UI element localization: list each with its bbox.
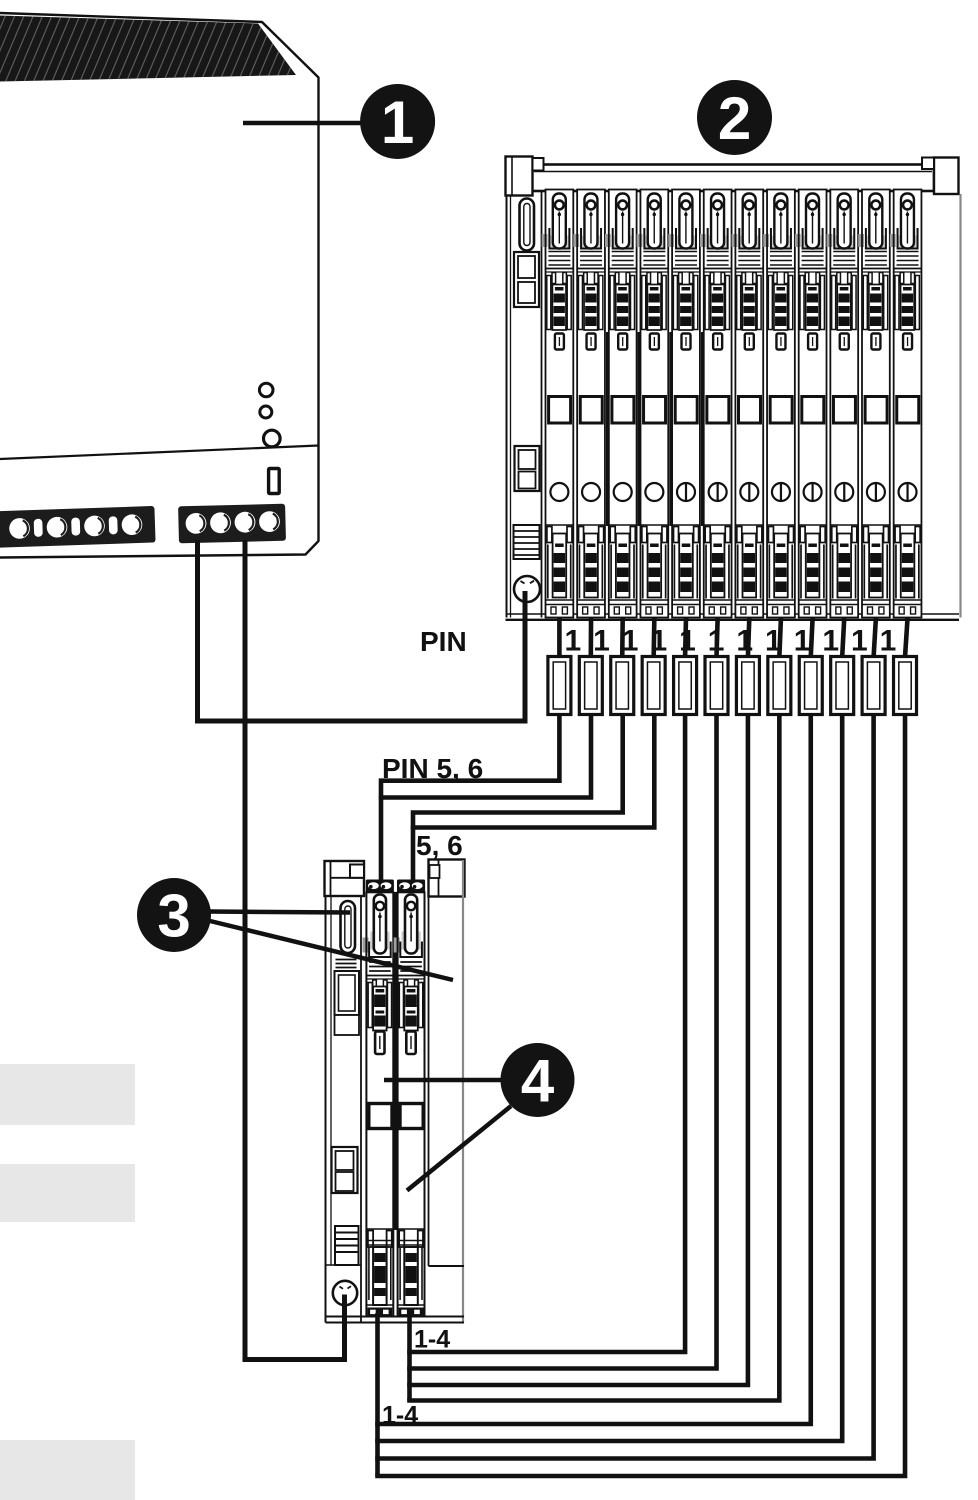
tag 9	[799, 657, 822, 715]
array DIN rail	[532, 165, 935, 192]
terminal module 1	[542, 190, 574, 618]
svg-text:1: 1	[765, 625, 782, 658]
wire tag 12 to module A pin 4	[375, 715, 905, 1477]
power supply right terminal block	[178, 504, 286, 544]
module 6 screw slot	[717, 483, 719, 501]
tag 5	[674, 657, 697, 715]
wire module 5 to tag 5	[683, 618, 689, 657]
wire power supply to lower unit screw	[245, 540, 345, 1360]
lower unit bottom edges	[326, 1317, 465, 1323]
lower unit column stripes	[336, 960, 357, 968]
background block 1	[0, 1064, 135, 1125]
module separator	[701, 332, 705, 526]
array right edge	[959, 194, 961, 618]
wire tag 6 to module B pin 2	[407, 715, 716, 1369]
wire tag 2 to module A pins 5,6	[379, 715, 591, 798]
array column clip A	[514, 252, 539, 307]
svg-text:1: 1	[794, 625, 811, 658]
lower unit left mount column	[326, 896, 362, 1323]
array bottom edge	[506, 613, 960, 615]
svg-text:1: 1	[650, 625, 667, 658]
array left mount column	[507, 191, 542, 618]
callout 3 bubble	[137, 878, 211, 952]
array column spring	[514, 525, 540, 559]
wire module 3 to tag 3	[620, 618, 625, 657]
tag 1	[548, 657, 571, 715]
lower unit left bracket	[325, 861, 365, 896]
terminal module 8	[763, 190, 795, 618]
module 11 screw slot	[875, 483, 877, 501]
array column slot	[520, 199, 535, 251]
wire module 6 to tag 6	[717, 618, 718, 657]
svg-text:1: 1	[679, 625, 696, 658]
wire module 1 to tag 1	[557, 618, 562, 657]
tag 4	[642, 657, 665, 715]
terminal module 7	[732, 190, 764, 618]
module 10 screw slot	[843, 483, 845, 501]
svg-text:1: 1	[880, 625, 897, 658]
callout 1 leader line	[243, 121, 365, 126]
lower unit right bracket	[429, 860, 465, 897]
lower module B	[394, 880, 425, 1317]
module 5 screw slot	[685, 483, 687, 501]
terminal module 5	[668, 190, 700, 618]
terminal module 3	[605, 190, 637, 618]
array column clip B	[515, 446, 540, 491]
terminal module 2	[573, 190, 605, 618]
wire tag 1 to module A pins 5,6	[381, 715, 559, 880]
lower unit rail bottom bracket line	[429, 1265, 465, 1267]
wire module 8 to tag 8	[779, 618, 781, 657]
svg-text:2: 2	[718, 85, 751, 152]
wire module 4 to tag 4	[651, 618, 656, 657]
lower unit mounting screw	[333, 1281, 357, 1305]
wire tag 7 to module B pin 3	[407, 715, 748, 1386]
lower module separator	[394, 892, 397, 1230]
svg-text:1: 1	[822, 625, 839, 658]
power supply switch indicator	[269, 469, 280, 494]
svg-text:1: 1	[381, 89, 414, 156]
power supply LED indicator 3	[264, 430, 281, 447]
power supply unit outline	[0, 13, 319, 558]
lower unit column clip A	[335, 971, 360, 1035]
svg-text:5, 6: 5, 6	[416, 830, 463, 861]
terminal module 12	[890, 190, 922, 618]
wire module 11 to tag 11	[874, 618, 876, 657]
tag 2	[579, 657, 602, 715]
wire tag 3 to module B pins 5,6	[413, 715, 623, 880]
array rail right end bracket	[922, 158, 959, 195]
wire power supply to array screw	[198, 540, 526, 721]
wire module 10 to tag 10	[842, 618, 844, 657]
wire tag 10 to module A pin 2	[375, 715, 842, 1442]
wire tag 5 to module B pin 1	[407, 715, 685, 1353]
module 12 screw slot	[906, 483, 908, 501]
lower unit right rail edge	[462, 860, 464, 1323]
svg-text:1: 1	[708, 625, 725, 658]
terminal module 11	[858, 190, 890, 618]
tag 6	[705, 657, 728, 715]
callout 2 bubble	[697, 80, 772, 155]
wire module 2 to tag 2	[589, 618, 594, 657]
power supply left terminal block	[0, 506, 156, 548]
tag 8	[768, 657, 791, 715]
terminal module 6	[700, 190, 732, 618]
svg-text:1: 1	[851, 625, 868, 658]
wire tag 4 to module B pins 5,6	[411, 715, 655, 828]
terminal module 4	[637, 190, 669, 618]
lower module A	[363, 880, 394, 1317]
wire module 12 to tag 12	[905, 618, 908, 657]
wire lower module A pins 1-4 bus	[375, 1313, 380, 1476]
power supply vent grille (hatched top)	[0, 10, 352, 86]
module 7 screw slot	[748, 483, 750, 501]
svg-text:PIN: PIN	[420, 626, 467, 657]
module 8 screw slot	[780, 483, 782, 501]
tag 3	[611, 657, 634, 715]
svg-text:1: 1	[593, 625, 610, 658]
terminal module 10	[827, 190, 859, 618]
lower unit column slot	[341, 901, 356, 953]
module 9 screw slot	[811, 483, 813, 501]
wire lower module B pins 1-4 bus	[407, 1313, 412, 1401]
power supply front panel bottom edge	[0, 446, 319, 460]
background block 3	[0, 1440, 135, 1500]
lower unit column clip B	[332, 1147, 358, 1193]
tag 7	[736, 657, 759, 715]
wire module 7 to tag 7	[748, 618, 749, 657]
callout 1 bubble	[360, 84, 435, 159]
svg-text:1: 1	[622, 625, 639, 658]
module separator	[669, 332, 673, 526]
wire tag 9 to module A pin 1	[375, 715, 811, 1425]
module separator	[638, 332, 642, 526]
array mounting screw	[514, 576, 540, 602]
svg-text:3: 3	[157, 883, 190, 950]
svg-text:1-4: 1-4	[414, 1326, 450, 1354]
wire module 9 to tag 9	[811, 618, 813, 657]
module separator	[606, 332, 610, 526]
wire tag 8 to module B pin 4	[407, 715, 779, 1401]
tag 10	[831, 657, 854, 715]
callout 3 leader line b	[208, 921, 453, 981]
wire tag 11 to module A pin 3	[375, 715, 873, 1459]
tag 12	[894, 657, 917, 715]
array rail left end bracket	[506, 157, 544, 196]
callout 4 bubble	[501, 1043, 575, 1117]
callout 4 leader line b	[407, 1106, 511, 1191]
power supply LED indicator 1	[259, 383, 273, 397]
lower unit column spring	[335, 1226, 359, 1265]
svg-text:1: 1	[736, 625, 753, 658]
tag 11	[862, 657, 885, 715]
callout 4 leader line a	[384, 1078, 503, 1083]
background block 2	[0, 1164, 135, 1222]
wire tip into lower unit screw	[342, 1295, 347, 1313]
svg-text:4: 4	[521, 1048, 555, 1115]
callout 3 leader line a	[208, 912, 350, 913]
svg-text:1: 1	[565, 625, 582, 658]
power supply LED indicator 2	[260, 406, 272, 418]
terminal module 9	[795, 190, 827, 618]
